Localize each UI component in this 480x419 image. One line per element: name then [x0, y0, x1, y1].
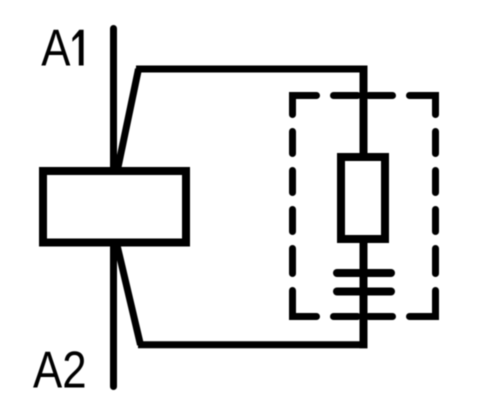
resistor R1 — [341, 157, 385, 239]
wire: slant from A1 lead to top bus — [117, 69, 139, 172]
wire: slant from A2 lead to bottom bus — [117, 243, 141, 345]
svg-text:A2: A2 — [33, 342, 87, 399]
wire: A2 vertical lead — [110, 242, 117, 387]
svg-text:A: A — [41, 20, 70, 77]
wire: bottom horizontal bus — [138, 341, 368, 348]
capacitor C1 bottom plate — [337, 288, 391, 296]
wire: A1 vertical lead — [110, 29, 117, 172]
suppressor module boundary (dashed box) — [293, 96, 436, 317]
wire: capacitor to bottom bus — [360, 291, 368, 348]
wire: suppressor top feed — [360, 66, 368, 161]
coil K1 (contactor coil box) — [43, 171, 186, 243]
wire: top horizontal bus — [136, 66, 367, 73]
terminal label A1 — [41, 20, 83, 77]
capacitor C1 top plate — [337, 269, 391, 277]
wire: resistor to capacitor — [360, 236, 368, 296]
